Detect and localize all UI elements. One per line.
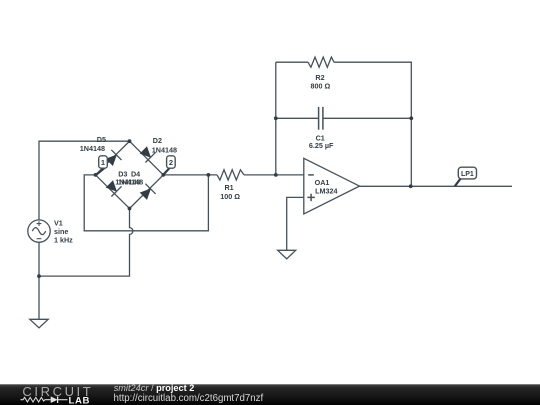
svg-text:R1: R1 (224, 183, 233, 192)
wire V1 top to bridge top vertex (39, 141, 130, 220)
resistor R2 (308, 57, 334, 67)
wire bridge bottom to V1 net with hop (39, 209, 133, 277)
wire op-amp output (360, 185, 513, 187)
svg-text:1N4148: 1N4148 (118, 178, 143, 187)
diode D3 (96, 175, 130, 209)
wire R1 to op-amp inverting input (244, 174, 304, 176)
node flag 1 (96, 156, 107, 175)
svg-text:6.25 µF: 6.25 µF (309, 141, 334, 150)
diode D2 (130, 141, 164, 175)
diode D4 (130, 175, 164, 209)
svg-text:LM324: LM324 (315, 187, 337, 196)
svg-text:1N4148: 1N4148 (152, 146, 177, 155)
svg-text:V1: V1 (54, 218, 63, 227)
resistor R1 (217, 170, 244, 180)
svg-text:smit24cr / project 2: smit24cr / project 2 (114, 383, 195, 393)
CircuitLab logo (21, 384, 94, 405)
svg-text:D2: D2 (153, 136, 162, 145)
footer bar (0, 384, 540, 405)
junction dot bridge top vertex (128, 139, 132, 143)
junction dot node 1 left vertex (94, 173, 98, 177)
svg-text:100 Ω: 100 Ω (220, 192, 240, 201)
ground below op-amp (278, 250, 296, 259)
junction dot V1 bottom net (37, 274, 41, 278)
wire V1 bottom to ground (38, 242, 40, 319)
junction dot output node (409, 184, 413, 188)
wire R2 left lead (276, 61, 308, 63)
voltage source V1 (28, 220, 50, 242)
junction dot R1 input node (207, 173, 211, 177)
wire node2 to R1 (163, 174, 217, 176)
svg-text:1N4148: 1N4148 (80, 144, 105, 153)
svg-text:1 kHz: 1 kHz (54, 235, 73, 244)
ground below V1 (30, 319, 48, 328)
junction dot node 2 right vertex (161, 173, 165, 177)
svg-text:D5: D5 (97, 135, 106, 144)
svg-text:LAB: LAB (69, 395, 91, 405)
wire C1 left lead (276, 117, 319, 119)
svg-text:LP1: LP1 (461, 171, 474, 178)
svg-text:http://circuitlab.com/c2t6gmt7: http://circuitlab.com/c2t6gmt7d7nzf (114, 393, 264, 404)
junction dot C1 right (409, 116, 413, 120)
wire node1 left loop down and across to node2 branch (84, 175, 208, 231)
junction dot C1 left (274, 116, 278, 120)
capacitor C1 (319, 107, 323, 130)
wire feedback left vertical (275, 62, 277, 175)
svg-text:1: 1 (101, 158, 105, 167)
svg-text:800 Ω: 800 Ω (311, 81, 331, 90)
wire op-amp non-inverting input to ground (287, 197, 304, 250)
junction dot feedback left (274, 173, 278, 177)
node flag 2 (164, 156, 175, 175)
op-amp OA1 (304, 158, 360, 214)
junction dot bridge bottom vertex (128, 207, 132, 211)
wire R2 right lead and right vertical (334, 62, 411, 186)
svg-text:2: 2 (169, 158, 173, 167)
wire C1 right lead (323, 117, 411, 119)
diode D5 (96, 141, 130, 175)
flag LP1 (455, 167, 477, 186)
